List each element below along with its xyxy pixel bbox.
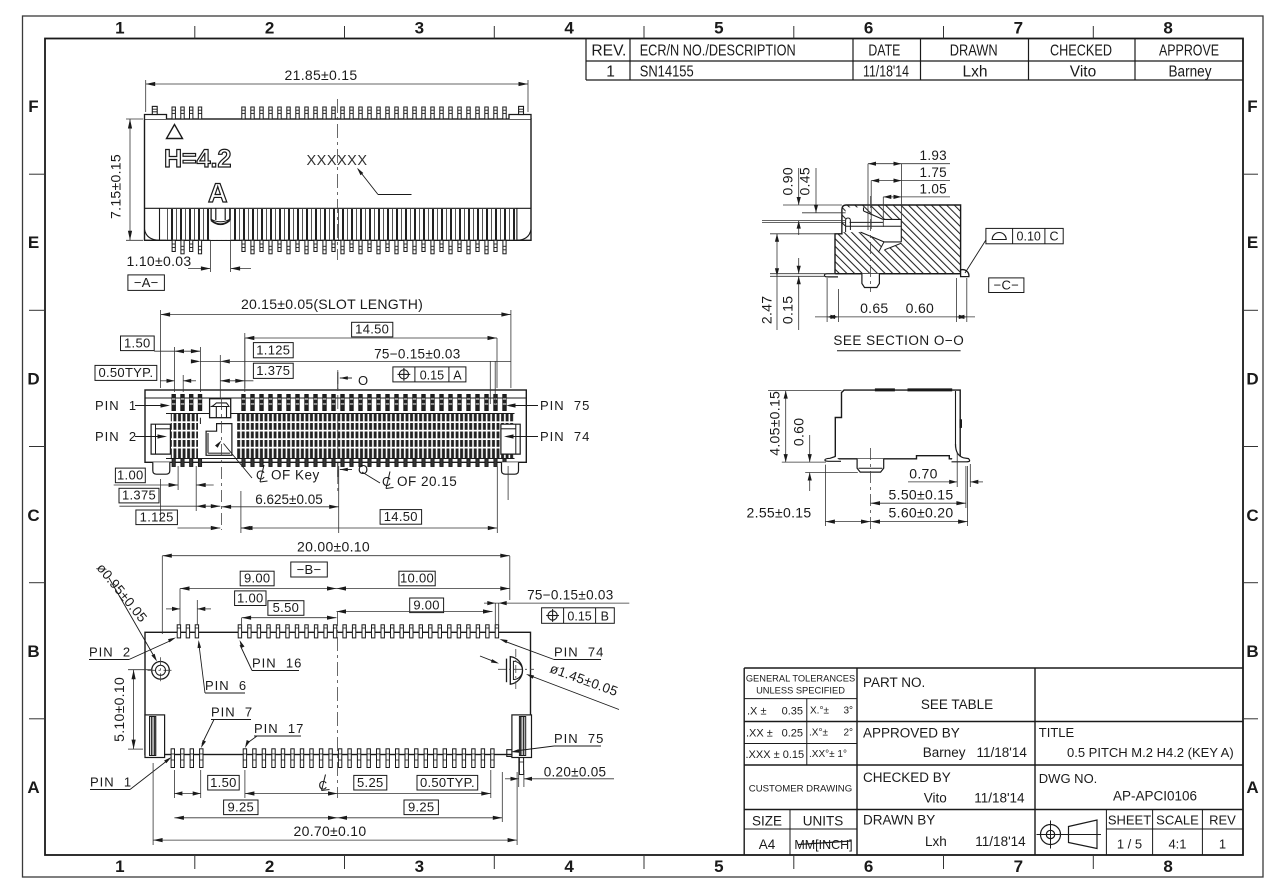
svg-text:5.25: 5.25 (357, 775, 384, 790)
svg-text:21.85±0.15: 21.85±0.15 (285, 67, 358, 83)
svg-text:TITLE: TITLE (1039, 725, 1075, 740)
svg-text:6: 6 (864, 19, 873, 38)
svg-text:0.15: 0.15 (420, 368, 444, 382)
dimension 1.00 lower (114, 468, 214, 488)
svg-text:Vito: Vito (924, 791, 947, 806)
svg-text:.XX ±: .XX ± (746, 728, 773, 740)
svg-text:C: C (27, 506, 39, 525)
svg-text:Barney: Barney (1169, 64, 1212, 81)
side view centerline (870, 448, 872, 530)
svg-text:0.25: 0.25 (782, 728, 803, 740)
dimension 14.50 upper (245, 322, 497, 388)
svg-text:Lxh: Lxh (925, 834, 947, 849)
pin 75 label (506, 398, 590, 413)
pin 1 label footprint (90, 757, 172, 790)
svg-text:E: E (1247, 233, 1258, 252)
svg-text:PIN 1: PIN 1 (90, 775, 132, 790)
footprint D hole 1.45 (498, 649, 534, 691)
svg-text:CHECKED BY: CHECKED BY (863, 770, 951, 785)
svg-text:UNLESS SPECIFIED: UNLESS SPECIFIED (756, 686, 845, 696)
dimension 1.10 key width (127, 241, 251, 273)
footprint top pads left group (177, 625, 198, 638)
svg-text:5: 5 (714, 857, 723, 876)
polarity triangle (167, 125, 183, 139)
dimension 5.50 footprint (242, 600, 337, 630)
slot view shelf line left of key cutout (199, 418, 201, 424)
svg-text:3: 3 (415, 19, 424, 38)
svg-text:3°: 3° (843, 706, 853, 717)
svg-text:X.°±: X.°± (810, 706, 829, 717)
svg-text:1: 1 (115, 857, 124, 876)
checked by cell (863, 770, 1025, 806)
svg-text:.XX°± 1°: .XX°± 1° (809, 749, 847, 760)
svg-text:0.15: 0.15 (780, 296, 796, 324)
front view bottom solder stubs (172, 240, 506, 254)
dimension 1.00 footprint (166, 590, 266, 625)
zone column ticks bottom (194, 855, 196, 869)
svg-text:C: C (1049, 230, 1058, 244)
dimension 0.50TYP footprint (338, 775, 491, 796)
svg-text:−B−: −B− (297, 562, 322, 577)
dimension 4.05 side (766, 391, 841, 463)
svg-text:1.93: 1.93 (920, 148, 947, 163)
svg-text:.X ±: .X ± (747, 706, 767, 718)
svg-text:0.70: 0.70 (909, 465, 937, 481)
svg-text:F: F (1247, 97, 1257, 116)
drawn by cell (863, 813, 1026, 850)
svg-text:1: 1 (606, 64, 615, 81)
pin 6 label footprint (198, 640, 248, 693)
slot view right mount ear (501, 424, 520, 454)
pin 7 label footprint (201, 705, 253, 749)
dimension 14.50 lower (241, 509, 497, 530)
svg-text:8: 8 (1163, 19, 1172, 38)
see section label (833, 333, 964, 351)
svg-text:SEE TABLE: SEE TABLE (921, 697, 993, 712)
svg-text:C: C (1246, 506, 1258, 525)
dimension 2.55 side (747, 465, 871, 526)
svg-text:GENERAL TOLERANCES: GENERAL TOLERANCES (746, 674, 855, 684)
section body bottom edge (835, 273, 961, 275)
dimension 75-0.15 footprint (484, 588, 629, 631)
dimension 1.93 section (868, 148, 950, 230)
svg-text:0.50TYP.: 0.50TYP. (98, 365, 153, 380)
pin 74 label (504, 429, 590, 444)
dimension 0.70 side (908, 452, 983, 487)
dimension 20.15 slot length (161, 297, 511, 388)
svg-text:1.05: 1.05 (920, 182, 947, 197)
svg-text:0.45: 0.45 (797, 167, 813, 195)
svg-text:DWG NO.: DWG NO. (1039, 771, 1098, 786)
svg-text:0.90: 0.90 (780, 167, 796, 195)
svg-text:PIN 1: PIN 1 (95, 398, 137, 413)
svg-text:1.375: 1.375 (122, 488, 156, 503)
pin 2 label footprint (89, 638, 176, 660)
footprint right bracket (507, 715, 532, 758)
datum C flag (989, 278, 1024, 293)
svg-text:6: 6 (864, 857, 873, 876)
slot view centerline (337, 370, 339, 492)
svg-text:20.70±0.10: 20.70±0.10 (294, 823, 367, 839)
svg-text:20.15±0.05(SLOT LENGTH): 20.15±0.05(SLOT LENGTH) (241, 297, 423, 312)
size units cells (752, 814, 853, 853)
svg-text:5.60±0.20: 5.60±0.20 (889, 505, 954, 521)
marking leader (357, 168, 412, 195)
svg-text:PIN 16: PIN 16 (252, 656, 302, 671)
svg-text:2.55±0.15: 2.55±0.15 (747, 505, 812, 521)
pin 1 label (95, 398, 170, 413)
dimension 9.25 left footprint (174, 799, 337, 820)
svg-text:7: 7 (1014, 857, 1023, 876)
svg-text:AP-APCI0106: AP-APCI0106 (1113, 789, 1197, 804)
footprint bottom pads left group (171, 749, 203, 768)
svg-text:PIN 2: PIN 2 (95, 429, 137, 444)
svg-text:DATE: DATE (868, 43, 900, 60)
dimension 20.70 footprint (153, 823, 517, 842)
side view solder stub (857, 459, 884, 472)
svg-text:1.10±0.03: 1.10±0.03 (127, 253, 192, 269)
svg-text:APPROVED BY: APPROVED BY (863, 726, 960, 741)
svg-text:1.125: 1.125 (140, 509, 174, 524)
section mark O upper (338, 372, 368, 389)
svg-text:5.10±0.10: 5.10±0.10 (111, 677, 127, 742)
svg-text:B: B (1246, 642, 1258, 661)
section cavity white shapes (843, 207, 902, 252)
section mark O lower (338, 462, 368, 477)
svg-text:1: 1 (115, 19, 124, 38)
dimension 9.25 right footprint (338, 799, 503, 820)
section solder stub (862, 274, 880, 288)
svg-text:PIN 74: PIN 74 (554, 645, 604, 660)
svg-text:0.20±0.05: 0.20±0.05 (544, 765, 607, 780)
part no cell (863, 675, 993, 712)
svg-text:5.50: 5.50 (273, 600, 300, 615)
front view legs strip (145, 208, 532, 240)
dimension 0.50TYP upper (95, 365, 196, 383)
section centerline (870, 196, 872, 292)
dimension 5.10 footprint (111, 670, 151, 749)
front view centerline (337, 99, 339, 260)
dimension 20.00 footprint (162, 539, 510, 635)
zone row ticks right (1243, 173, 1258, 175)
svg-text:UNITS: UNITS (803, 814, 844, 829)
svg-text:1 / 5: 1 / 5 (1117, 837, 1142, 852)
svg-text:0.10: 0.10 (1017, 230, 1041, 244)
extension lines below slot view (161, 466, 509, 533)
svg-text:CHECKED: CHECKED (1050, 43, 1112, 60)
svg-text:−C−: −C− (994, 277, 1019, 292)
section body hatched outline (834, 205, 960, 274)
pin 2 label (95, 429, 167, 444)
svg-text:2°: 2° (843, 728, 853, 739)
svg-text:7: 7 (1014, 19, 1023, 38)
slot view contact band structure lines (166, 414, 515, 459)
svg-text:1.00: 1.00 (237, 590, 264, 605)
svg-text:PIN 17: PIN 17 (254, 721, 304, 736)
general tolerances cell (746, 674, 856, 762)
svg-text:Lxh: Lxh (963, 64, 988, 81)
dimension 1.375 lower (119, 488, 220, 509)
svg-text:REV.: REV. (591, 43, 626, 60)
svg-text:9.25: 9.25 (408, 799, 435, 814)
svg-text:4.05±0.15: 4.05±0.15 (766, 391, 782, 456)
svg-text:Vito: Vito (1070, 64, 1096, 81)
slot view right foot (502, 462, 519, 474)
svg-text:2: 2 (265, 857, 274, 876)
svg-text:SCALE: SCALE (1156, 813, 1199, 828)
position tolerance frame B (542, 608, 615, 624)
svg-text:10.00: 10.00 (400, 571, 434, 586)
svg-text:6.625±0.05: 6.625±0.05 (255, 492, 322, 507)
svg-text:APPROVE: APPROVE (1159, 43, 1219, 60)
section right foot (961, 270, 969, 277)
side view outline (835, 390, 962, 459)
third angle projection symbol (1037, 820, 1102, 849)
svg-text:4: 4 (564, 857, 574, 876)
front view corner pin right (519, 106, 524, 114)
svg-text:PIN 75: PIN 75 (554, 731, 604, 746)
front view body outline (145, 115, 532, 241)
svg-text:75−0.15±0.03: 75−0.15±0.03 (374, 347, 460, 362)
dimension 1.75 section (871, 165, 950, 229)
svg-text:8: 8 (1163, 857, 1172, 876)
side view left foot (825, 457, 841, 462)
svg-text:D: D (1246, 370, 1258, 389)
datum B flag (291, 562, 328, 577)
slot view body outline (145, 390, 526, 462)
svg-text:PIN 7: PIN 7 (211, 705, 253, 720)
footprint bottom pads main group (243, 749, 494, 768)
svg-text:1.50: 1.50 (210, 775, 237, 790)
footprint top pads main group (238, 625, 498, 638)
hole 1.45 callout (480, 656, 620, 710)
svg-text:14.50: 14.50 (355, 322, 389, 337)
dimension 2.47 section (759, 234, 835, 330)
revision table (586, 39, 1243, 81)
svg-text:1.125: 1.125 (256, 343, 290, 358)
svg-text:1.375: 1.375 (256, 363, 290, 378)
dimension 1.125 lower (136, 509, 252, 530)
pin 74 label footprint (500, 639, 605, 660)
side view stub inner line (859, 467, 883, 469)
svg-text:DRAWN BY: DRAWN BY (863, 813, 935, 828)
footprint centerline (337, 612, 339, 798)
key centerline (221, 398, 223, 530)
slot view key bridge (210, 399, 231, 418)
svg-text:A: A (27, 778, 39, 797)
dimension 5.60 side (871, 466, 968, 526)
svg-text:7.15±0.15: 7.15±0.15 (108, 154, 124, 219)
dimension 1.375 upper (220, 363, 293, 383)
front view key slot (210, 209, 230, 240)
dimension 0.65 0.60 section (815, 278, 975, 322)
centerline of 20.15 label (362, 472, 457, 490)
dimension 1.125 upper (191, 343, 293, 364)
slot view dense contact band right group (237, 414, 515, 459)
svg-text:0.65: 0.65 (860, 300, 888, 316)
svg-text:4: 4 (564, 19, 574, 38)
svg-text:11/18'14: 11/18'14 (975, 834, 1026, 849)
slot view top row pins (172, 395, 506, 411)
dimension 0.60 side (790, 418, 857, 491)
svg-text:2.47: 2.47 (759, 296, 775, 324)
svg-text:H=4.2: H=4.2 (164, 145, 231, 173)
dimension 9.00 left footprint (180, 571, 337, 625)
hole 0.95 callout (94, 560, 157, 661)
svg-text:1.50: 1.50 (124, 335, 151, 350)
svg-text:1.75: 1.75 (920, 165, 947, 180)
dimension 0.90 section (762, 167, 845, 235)
svg-text:SHEET: SHEET (1108, 813, 1151, 828)
svg-text:SEE SECTION O−O: SEE SECTION O−O (833, 333, 964, 348)
dimension 10.00 footprint (337, 571, 510, 591)
svg-text:3: 3 (415, 857, 424, 876)
svg-text:OF Key: OF Key (271, 468, 320, 483)
svg-text:1: 1 (1219, 837, 1226, 852)
dimension 5.50 side (871, 466, 966, 508)
dimension 6.625 lower (222, 492, 339, 509)
svg-text:XXXXXX: XXXXXX (306, 153, 367, 169)
svg-text:PIN 75: PIN 75 (540, 398, 590, 413)
front view top contact pins (172, 107, 506, 119)
svg-text:PIN 2: PIN 2 (89, 645, 131, 660)
title cell (1039, 725, 1234, 760)
footprint left bracket (145, 715, 165, 758)
svg-text:B: B (27, 642, 39, 661)
svg-text:9.00: 9.00 (244, 571, 271, 586)
svg-text:D: D (27, 370, 39, 389)
dimension 7.15 left (108, 119, 144, 240)
svg-text:11/18'14: 11/18'14 (863, 64, 909, 81)
pin 16 label footprint (240, 640, 303, 671)
svg-text:14.50: 14.50 (384, 509, 418, 524)
extension lines footprint bottom (153, 763, 517, 845)
svg-text:5: 5 (714, 19, 723, 38)
svg-text:9.25: 9.25 (228, 799, 255, 814)
svg-text:Barney: Barney (923, 745, 966, 760)
pin 17 label footprint (245, 721, 304, 748)
svg-text:9.00: 9.00 (413, 597, 440, 612)
side view right lead (952, 444, 970, 462)
svg-text:4:1: 4:1 (1168, 837, 1186, 852)
svg-text:A: A (208, 178, 228, 208)
front view corner pin left (152, 106, 157, 114)
svg-text:PIN 6: PIN 6 (205, 678, 247, 693)
slot view left mount ear (151, 424, 170, 454)
zone row ticks left (29, 173, 45, 175)
title block grid (744, 668, 1243, 855)
svg-text:MM[INCH]: MM[INCH] (794, 838, 852, 852)
svg-text:0.50TYP.: 0.50TYP. (420, 775, 475, 790)
footprint pin 75 pad (519, 749, 523, 775)
dimension 1.50 upper (121, 335, 201, 353)
svg-text:0.5 PITCH M.2 H4.2 (KEY A): 0.5 PITCH M.2 H4.2 (KEY A) (1067, 745, 1234, 760)
section left foot (824, 274, 838, 277)
svg-text:REV: REV (1209, 813, 1236, 828)
svg-text:0.60: 0.60 (906, 300, 934, 316)
svg-text:20.00±0.10: 20.00±0.10 (297, 539, 370, 555)
svg-text:0.35: 0.35 (782, 706, 803, 718)
dimension 0.45 section (762, 167, 846, 222)
dimension 1.05 section (883, 182, 950, 228)
approved by cell (863, 726, 1027, 761)
dimension 5.25 footprint (245, 775, 387, 796)
pin 75 label footprint (511, 731, 604, 753)
dimension 75-0.15 upper (220, 347, 511, 405)
svg-text:.XXX ± 0.15: .XXX ± 0.15 (746, 749, 805, 761)
svg-text:75−0.15±0.03: 75−0.15±0.03 (527, 588, 613, 603)
svg-text:A4: A4 (759, 837, 776, 852)
sheet scale rev cells (1108, 813, 1236, 852)
svg-text:F: F (28, 97, 38, 116)
slot view dense contact band left group (171, 414, 198, 459)
svg-text:O: O (358, 373, 368, 388)
svg-text:E: E (28, 233, 39, 252)
svg-text:B: B (601, 609, 609, 623)
svg-text:0.15: 0.15 (567, 609, 591, 623)
svg-text:SIZE: SIZE (752, 814, 782, 829)
svg-text:A: A (1246, 778, 1258, 797)
dimension 0.15 section (770, 258, 835, 330)
svg-text:PART NO.: PART NO. (863, 675, 925, 690)
svg-text:2: 2 (265, 19, 274, 38)
svg-text:CUSTOMER DRAWING: CUSTOMER DRAWING (749, 784, 852, 795)
svg-text:.X°±: .X°± (809, 728, 828, 739)
footprint view body outline (145, 632, 531, 754)
profile tolerance frame 0.10 C (965, 228, 1063, 273)
svg-text:−A−: −A− (134, 275, 159, 290)
svg-text:DRAWN: DRAWN (950, 43, 998, 60)
svg-text:11/18'14: 11/18'14 (977, 745, 1028, 760)
dwg no cell (1039, 771, 1197, 804)
dimension 1.50 footprint (174, 775, 239, 796)
svg-text:A: A (453, 368, 462, 382)
position tolerance frame A (393, 367, 466, 383)
svg-text:SN14155: SN14155 (640, 64, 694, 81)
zone column ticks top (194, 26, 196, 39)
centerline symbol footprint (319, 775, 330, 793)
svg-text:ECR/N NO./DESCRIPTION: ECR/N NO./DESCRIPTION (640, 43, 796, 60)
datum A flag (128, 275, 164, 291)
slot view bottom stubs (172, 459, 506, 467)
dimension 9.00 right footprint (337, 597, 493, 613)
svg-text:11/18'14: 11/18'14 (974, 791, 1025, 806)
svg-text:5.50±0.15: 5.50±0.15 (889, 487, 954, 503)
slot view key cutout (206, 424, 252, 478)
footprint hole 0.95 (148, 657, 174, 683)
svg-text:1.00: 1.00 (117, 468, 144, 483)
extension lines above slot view dims (175, 333, 245, 398)
centerline of key label (256, 465, 320, 483)
svg-text:OF 20.15: OF 20.15 (397, 474, 457, 489)
dimension 0.20 (505, 758, 614, 787)
dimension 21.85 top (146, 67, 528, 112)
front view bottom corner fillets (145, 230, 532, 241)
svg-text:PIN 74: PIN 74 (540, 429, 590, 444)
svg-text:0.60: 0.60 (790, 418, 806, 446)
slot view left foot (153, 462, 170, 474)
